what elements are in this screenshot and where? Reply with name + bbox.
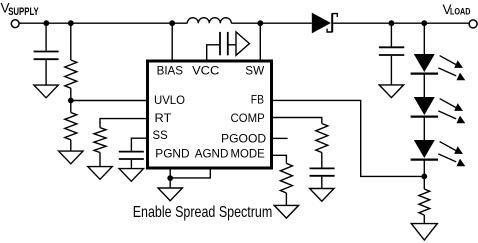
svg-text:SW: SW [245,64,264,78]
svg-text:SUPPLY: SUPPLY [8,6,39,18]
svg-text:PGND: PGND [155,146,189,160]
svg-text:COMP: COMP [231,111,265,125]
svg-text:AGND: AGND [195,146,229,160]
svg-text:RT: RT [155,111,172,125]
svg-text:FB: FB [251,93,264,107]
svg-text:UVLO: UVLO [154,93,185,107]
svg-text:LOAD: LOAD [450,7,471,18]
svg-text:PGOOD: PGOOD [221,131,266,145]
svg-text:SS: SS [153,128,168,142]
svg-text:MODE: MODE [231,146,265,160]
svg-text:Enable Spread Spectrum: Enable Spread Spectrum [133,204,273,221]
svg-text:VCC: VCC [192,64,219,78]
svg-text:BIAS: BIAS [157,64,183,78]
